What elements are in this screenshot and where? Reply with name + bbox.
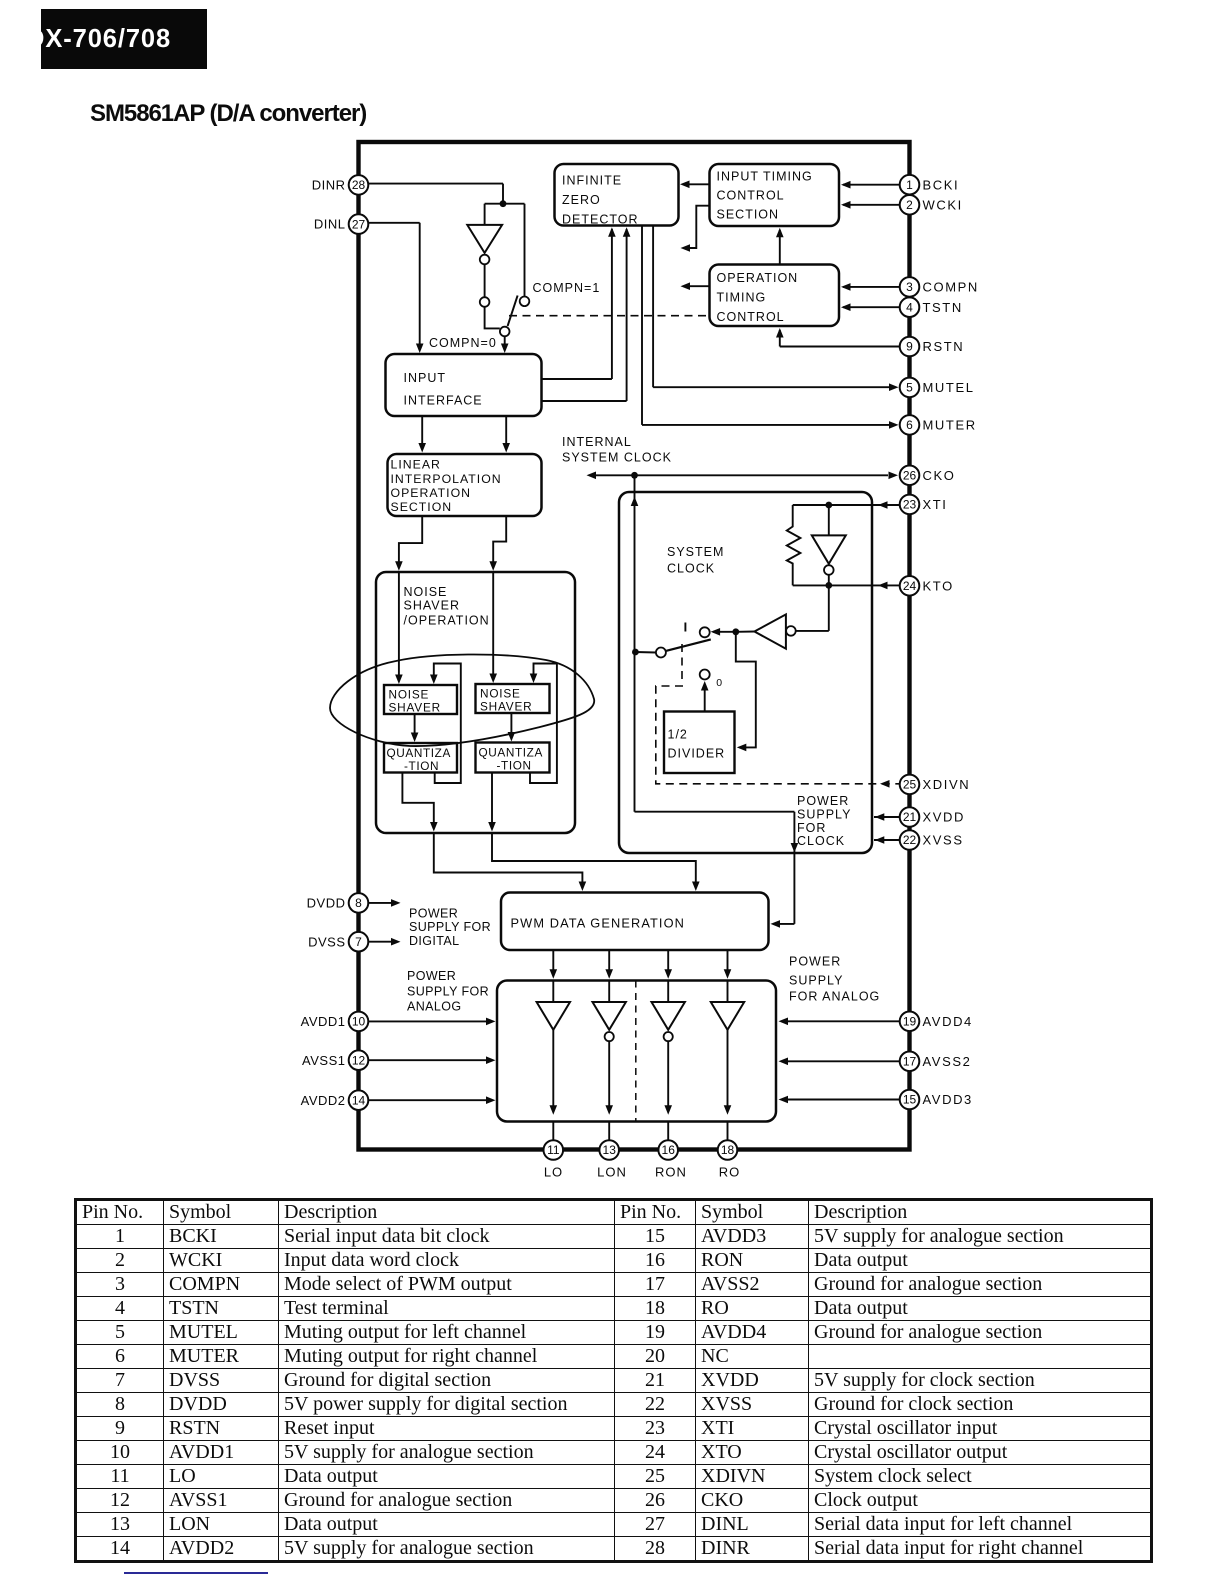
svg-text:KTO: KTO xyxy=(923,578,954,593)
svg-text:OPERATION: OPERATION xyxy=(717,271,799,285)
svg-text:DVDD: DVDD xyxy=(307,896,346,911)
svg-text:SYSTEM: SYSTEM xyxy=(667,545,724,559)
svg-text:3: 3 xyxy=(906,280,913,294)
svg-text:18: 18 xyxy=(721,1143,735,1157)
svg-text:INPUT: INPUT xyxy=(404,371,447,385)
svg-text:16: 16 xyxy=(662,1143,676,1157)
svg-text:9: 9 xyxy=(906,340,913,354)
svg-text:NOISE: NOISE xyxy=(404,585,448,599)
svg-text:SHAVER: SHAVER xyxy=(480,699,532,713)
svg-text:-TION: -TION xyxy=(497,759,532,773)
svg-text:MUTEL: MUTEL xyxy=(923,380,975,395)
svg-text:0: 0 xyxy=(716,677,723,689)
svg-text:SECTION: SECTION xyxy=(391,500,453,514)
svg-text:28: 28 xyxy=(352,178,366,192)
svg-text:1/2: 1/2 xyxy=(668,728,688,742)
svg-text:COMPN: COMPN xyxy=(923,280,979,295)
svg-text:PWM DATA GENERATION: PWM DATA GENERATION xyxy=(511,916,685,931)
svg-text:POWER: POWER xyxy=(407,969,456,983)
svg-text:14: 14 xyxy=(352,1093,366,1107)
svg-text:XTI: XTI xyxy=(923,497,948,512)
svg-text:AVDD4: AVDD4 xyxy=(923,1014,973,1029)
svg-text:AVDD1: AVDD1 xyxy=(301,1014,346,1029)
svg-text:12: 12 xyxy=(352,1053,366,1067)
svg-text:DIGITAL: DIGITAL xyxy=(409,934,460,948)
svg-text:SUPPLY: SUPPLY xyxy=(789,974,843,988)
svg-text:ANALOG: ANALOG xyxy=(407,1000,462,1014)
svg-text:DINR: DINR xyxy=(312,178,346,193)
svg-text:1: 1 xyxy=(906,178,913,192)
svg-text:7: 7 xyxy=(355,935,362,949)
svg-text:21: 21 xyxy=(903,810,917,824)
svg-text:4: 4 xyxy=(906,300,913,314)
svg-text:CLOCK: CLOCK xyxy=(667,562,715,576)
svg-text:17: 17 xyxy=(903,1055,917,1069)
svg-text:FOR: FOR xyxy=(797,821,826,835)
svg-text:TIMING: TIMING xyxy=(717,291,767,305)
svg-text:XVSS: XVSS xyxy=(923,833,964,848)
svg-text:5: 5 xyxy=(906,381,913,395)
svg-text:QUANTIZA: QUANTIZA xyxy=(387,746,451,760)
svg-text:POWER: POWER xyxy=(797,794,849,808)
svg-text:COMPN=0: COMPN=0 xyxy=(429,336,497,350)
svg-text:SHAVER: SHAVER xyxy=(389,700,441,714)
svg-text:INTERNAL: INTERNAL xyxy=(562,435,632,449)
svg-text:LON: LON xyxy=(597,1165,627,1180)
svg-text:XVDD: XVDD xyxy=(923,810,966,825)
svg-text:25: 25 xyxy=(903,778,917,792)
svg-text:SUPPLY FOR: SUPPLY FOR xyxy=(407,985,489,999)
svg-text:DVSS: DVSS xyxy=(308,934,345,949)
svg-text:/OPERATION: /OPERATION xyxy=(404,614,490,628)
svg-text:19: 19 xyxy=(903,1015,917,1029)
svg-text:SECTION: SECTION xyxy=(717,208,780,222)
svg-text:8: 8 xyxy=(355,896,362,910)
svg-text:SUPPLY: SUPPLY xyxy=(797,808,851,822)
svg-text:DIVIDER: DIVIDER xyxy=(668,747,726,761)
svg-text:LINEAR: LINEAR xyxy=(391,458,441,472)
svg-text:SYSTEM CLOCK: SYSTEM CLOCK xyxy=(562,451,672,465)
svg-text:11: 11 xyxy=(547,1143,560,1157)
svg-text:27: 27 xyxy=(352,217,366,231)
svg-text:POWER: POWER xyxy=(789,955,841,969)
svg-text:INPUT TIMING: INPUT TIMING xyxy=(717,170,813,184)
svg-text:2: 2 xyxy=(906,198,913,212)
svg-text:SHAVER: SHAVER xyxy=(404,599,460,613)
svg-text:10: 10 xyxy=(352,1015,366,1029)
svg-text:INFINITE: INFINITE xyxy=(562,174,622,188)
svg-text:23: 23 xyxy=(903,498,917,512)
svg-text:INTERPOLATION: INTERPOLATION xyxy=(391,472,502,486)
svg-text:LO: LO xyxy=(544,1165,563,1180)
svg-text:BCKI: BCKI xyxy=(923,177,960,192)
svg-text:DETECTOR: DETECTOR xyxy=(562,212,639,226)
svg-text:24: 24 xyxy=(903,579,917,593)
svg-text:AVDD2: AVDD2 xyxy=(301,1093,346,1108)
svg-text:AVSS2: AVSS2 xyxy=(923,1054,972,1069)
svg-text:TSTN: TSTN xyxy=(923,300,963,315)
svg-text:OPERATION: OPERATION xyxy=(391,486,472,500)
svg-text:MUTER: MUTER xyxy=(923,418,977,433)
svg-text:ZERO: ZERO xyxy=(562,193,601,207)
svg-text:DINL: DINL xyxy=(314,217,346,232)
svg-text:CLOCK: CLOCK xyxy=(797,834,845,848)
svg-text:CONTROL: CONTROL xyxy=(717,189,785,203)
svg-text:13: 13 xyxy=(603,1143,617,1157)
svg-text:COMPN=1: COMPN=1 xyxy=(533,281,601,295)
svg-text:POWER: POWER xyxy=(409,907,458,921)
svg-text:CKO: CKO xyxy=(923,468,956,483)
svg-text:FOR ANALOG: FOR ANALOG xyxy=(789,990,880,1004)
svg-text:CONTROL: CONTROL xyxy=(717,310,785,324)
svg-text:26: 26 xyxy=(903,469,917,483)
svg-text:22: 22 xyxy=(903,833,917,847)
svg-text:RON: RON xyxy=(655,1165,687,1180)
svg-text:AVDD3: AVDD3 xyxy=(923,1092,973,1107)
svg-text:WCKI: WCKI xyxy=(923,197,963,212)
svg-text:SUPPLY FOR: SUPPLY FOR xyxy=(409,920,491,934)
svg-text:6: 6 xyxy=(906,418,913,432)
svg-text:-TION: -TION xyxy=(404,759,439,773)
svg-text:RSTN: RSTN xyxy=(923,339,965,354)
svg-text:XDIVN: XDIVN xyxy=(923,777,971,792)
svg-text:RO: RO xyxy=(719,1165,741,1180)
svg-text:INTERFACE: INTERFACE xyxy=(404,394,483,408)
svg-text:NOISE: NOISE xyxy=(389,687,430,701)
svg-text:NOISE: NOISE xyxy=(480,686,521,700)
svg-text:15: 15 xyxy=(903,1093,917,1107)
svg-text:QUANTIZA: QUANTIZA xyxy=(479,745,543,759)
svg-text:AVSS1: AVSS1 xyxy=(302,1053,345,1068)
